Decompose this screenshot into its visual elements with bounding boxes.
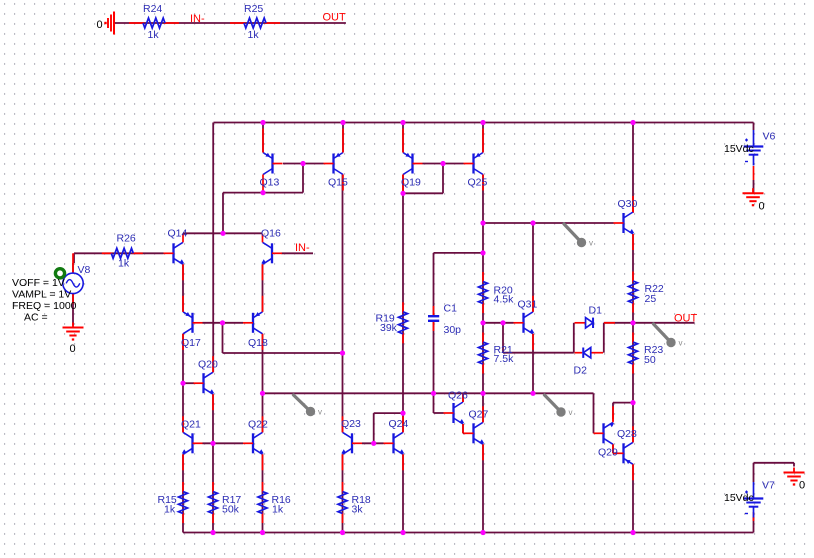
svg-text:0: 0 [70, 343, 76, 355]
svg-text:50k: 50k [222, 504, 240, 516]
svg-text:Q24: Q24 [389, 418, 409, 430]
svg-text:1k: 1k [148, 29, 160, 41]
svg-text:50: 50 [644, 354, 656, 366]
svg-text:C1: C1 [444, 303, 458, 315]
svg-text:v: v [589, 239, 593, 248]
svg-text:Q17: Q17 [181, 337, 201, 349]
svg-text:15Vdc: 15Vdc [724, 492, 754, 504]
svg-text:Q26: Q26 [448, 390, 468, 402]
svg-text:IN-: IN- [295, 242, 310, 254]
svg-text:39k: 39k [380, 322, 398, 334]
svg-text:30p: 30p [444, 324, 462, 336]
svg-text:4.5k: 4.5k [494, 294, 515, 306]
svg-text:AC =: AC = [24, 312, 48, 324]
svg-text:v: v [569, 408, 573, 417]
svg-text:Q18: Q18 [248, 337, 268, 349]
svg-text:0: 0 [97, 19, 103, 31]
svg-text:Q25: Q25 [468, 177, 488, 189]
svg-text:Q27: Q27 [469, 409, 489, 421]
svg-text:Q23: Q23 [341, 418, 361, 430]
svg-text:OUT: OUT [323, 12, 347, 24]
svg-text:1k: 1k [248, 29, 260, 41]
svg-text:Q14: Q14 [168, 228, 188, 240]
svg-text:Q31: Q31 [518, 299, 538, 311]
svg-text:Q28: Q28 [617, 428, 637, 440]
svg-text:Q20: Q20 [198, 359, 218, 371]
svg-text:v: v [318, 408, 322, 417]
svg-text:1k: 1k [164, 504, 176, 516]
svg-text:25: 25 [645, 293, 657, 305]
svg-text:1k: 1k [272, 504, 284, 516]
svg-text:OUT: OUT [674, 313, 698, 325]
svg-text:Q16: Q16 [261, 228, 281, 240]
svg-text:15Vdc: 15Vdc [724, 143, 754, 155]
svg-text:v: v [679, 339, 683, 348]
svg-text:R24: R24 [143, 3, 162, 15]
svg-text:R25: R25 [244, 3, 263, 15]
svg-text:R26: R26 [117, 233, 136, 245]
svg-text:1k: 1k [118, 257, 130, 269]
svg-text:Q30: Q30 [618, 198, 638, 210]
svg-text:V6: V6 [763, 131, 776, 143]
svg-text:7.5k: 7.5k [494, 353, 515, 365]
svg-text:0: 0 [799, 480, 805, 492]
svg-text:FREQ = 1000: FREQ = 1000 [12, 300, 77, 312]
svg-text:VOFF = 1V: VOFF = 1V [12, 277, 65, 289]
svg-text:Q21: Q21 [181, 419, 201, 431]
svg-text:Q15: Q15 [328, 177, 348, 189]
svg-text:Q19: Q19 [401, 177, 421, 189]
svg-text:V7: V7 [762, 480, 775, 492]
svg-text:V8: V8 [78, 264, 91, 276]
svg-text:0: 0 [759, 201, 765, 213]
svg-text:IN-: IN- [190, 13, 205, 25]
svg-text:Q13: Q13 [260, 177, 280, 189]
svg-text:VAMPL = 1V: VAMPL = 1V [12, 289, 71, 301]
svg-text:3k: 3k [352, 504, 364, 516]
svg-text:D2: D2 [574, 365, 588, 377]
svg-text:Q29: Q29 [598, 447, 618, 459]
svg-text:D1: D1 [589, 305, 603, 317]
svg-text:Q22: Q22 [248, 419, 268, 431]
